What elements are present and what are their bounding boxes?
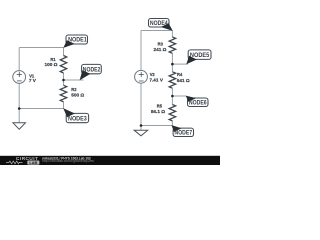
svg-text:NODE2: NODE2 xyxy=(83,67,101,73)
svg-text:NODE5: NODE5 xyxy=(190,53,210,59)
svg-text:R2: R2 xyxy=(71,87,77,92)
svg-text:NODE3: NODE3 xyxy=(68,116,87,122)
svg-text:241 Ω: 241 Ω xyxy=(154,47,167,52)
svg-text:NODE7: NODE7 xyxy=(175,131,193,137)
svg-text:NODE6: NODE6 xyxy=(189,101,207,107)
svg-text:LAB: LAB xyxy=(29,161,37,165)
svg-text:R4: R4 xyxy=(177,72,183,77)
svg-text:100 Ω: 100 Ω xyxy=(45,62,58,67)
svg-text:NODE4: NODE4 xyxy=(150,21,168,27)
svg-text:NODE1: NODE1 xyxy=(68,38,87,44)
svg-text:7 V: 7 V xyxy=(29,78,37,83)
svg-text:84.1 Ω: 84.1 Ω xyxy=(151,109,165,114)
svg-text:7.41 V: 7.41 V xyxy=(149,77,163,82)
svg-text:http://circuitlab.com/c/g5t4kb: http://circuitlab.com/c/g5t4kbdxp2rm/ xyxy=(42,159,94,163)
svg-text:541 Ω: 541 Ω xyxy=(177,78,190,83)
svg-text:R5: R5 xyxy=(157,104,163,109)
svg-text:V2: V2 xyxy=(150,72,156,77)
svg-text:500 Ω: 500 Ω xyxy=(71,93,84,98)
